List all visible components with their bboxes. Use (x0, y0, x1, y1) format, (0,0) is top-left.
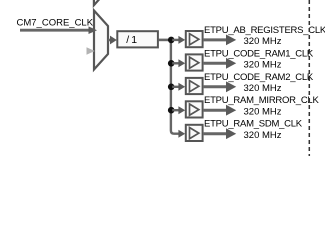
svg-text:ETPU_RAM_SDM_CLK: ETPU_RAM_SDM_CLK (204, 119, 303, 130)
svg-text:ETPU_RAM_MIRROR_CLK: ETPU_RAM_MIRROR_CLK (204, 95, 319, 106)
svg-text:CM7_CORE_CLK: CM7_CORE_CLK (17, 18, 94, 29)
svg-text:320 MHz: 320 MHz (244, 59, 282, 70)
svg-text:ETPU_CODE_RAM1_CLK: ETPU_CODE_RAM1_CLK (204, 48, 314, 59)
svg-text:320 MHz: 320 MHz (244, 130, 282, 141)
svg-text:/ 1: / 1 (126, 34, 137, 46)
svg-text:320 MHz: 320 MHz (244, 83, 282, 94)
svg-text:320 MHz: 320 MHz (244, 36, 282, 47)
svg-text:320 MHz: 320 MHz (244, 106, 282, 117)
svg-text:ETPU_CODE_RAM2_CLK: ETPU_CODE_RAM2_CLK (204, 72, 314, 83)
svg-text:ETPU_AB_REGISTERS_CLK: ETPU_AB_REGISTERS_CLK (204, 25, 325, 36)
